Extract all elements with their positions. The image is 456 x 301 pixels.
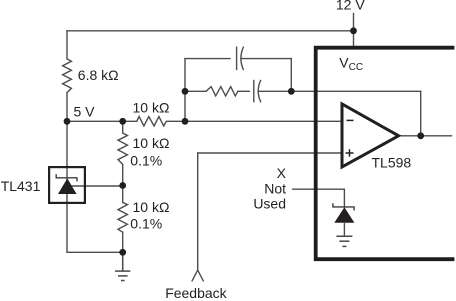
wire top cap branch right (241, 58, 291, 60)
wire op-amp output (399, 135, 452, 137)
wire top rail from left rail to 12V node (67, 30, 354, 32)
node divider top (119, 118, 126, 125)
svg-text:6.8 kΩ: 6.8 kΩ (78, 67, 119, 83)
wire RC branch right (258, 90, 291, 92)
node compensation right (288, 88, 295, 95)
wire divider between R3 and R4 (122, 164, 124, 202)
wire feedback to output vertical (420, 91, 422, 136)
wire compensation right vertical (290, 59, 292, 92)
wire not-used pin (293, 189, 345, 207)
svg-text:X: X (277, 165, 287, 181)
node divider mid (119, 182, 126, 189)
IC box TL598 (316, 48, 455, 260)
wire divider top segment (122, 121, 124, 133)
svg-text:Feedback: Feedback (165, 285, 227, 301)
wire compensation left vertical (184, 59, 186, 122)
svg-text:10 kΩ: 10 kΩ (133, 99, 170, 115)
resistor R3 10 kOhm 0.1% upper (118, 133, 127, 164)
svg-text:Not: Not (264, 181, 286, 197)
wire feedback to output horizontal (291, 90, 420, 92)
ground GND2 (diode) (336, 236, 352, 246)
wire top cap branch left (185, 58, 230, 60)
wire R2 to op-amp inverting input (166, 120, 342, 122)
capacitor C2 curved plate (258, 80, 261, 103)
svg-text:Used: Used (253, 196, 286, 212)
capacitor C2 flat plate (253, 80, 255, 103)
wire RC branch between resistor and cap (238, 90, 250, 92)
wire divider below R4 to ground node (122, 232, 124, 252)
feedback arrow (192, 270, 204, 281)
op-amp U1 (342, 104, 399, 167)
node compensation left (182, 88, 189, 95)
wire anode to ground node (67, 251, 123, 253)
wire left rail upper (66, 31, 68, 59)
wire left rail mid (66, 93, 68, 166)
TL431 cathode bar (56, 174, 77, 181)
node inverting branch (182, 118, 189, 125)
node 5V (64, 118, 71, 125)
svg-text:TL431: TL431 (1, 178, 41, 194)
diode D1 triangle (334, 207, 354, 223)
resistor R1 6.8 kOhm (63, 59, 72, 93)
op-amp plus sign (346, 149, 354, 157)
svg-text:0.1%: 0.1% (130, 216, 162, 232)
node output (417, 132, 424, 139)
svg-text:10 kΩ: 10 kΩ (133, 135, 170, 151)
TL431 triangle (58, 178, 77, 194)
svg-text:12 V: 12 V (336, 0, 365, 12)
capacitor C1 curved plate (241, 47, 244, 71)
wire left rail through TL431 to bottom corner (66, 166, 68, 252)
TL431 U2 box (49, 167, 85, 203)
node 12V junction (350, 27, 357, 34)
resistor R2 10 kOhm horizontal (137, 117, 167, 126)
svg-text:10 kΩ: 10 kΩ (133, 199, 170, 215)
wire 12V stub (353, 14, 355, 47)
wire TL431 ref to divider node (72, 185, 123, 187)
op-amp minus sign (347, 119, 354, 121)
resistor R5 compensation (206, 87, 238, 96)
wire RC branch left (185, 90, 206, 92)
node ground junction (119, 249, 126, 256)
wire 5V node to R2 (67, 120, 137, 122)
ground GND1 (divider) (115, 252, 130, 280)
diode D1 cathode bar (zener style) (333, 203, 354, 210)
wire noninverting input (198, 152, 342, 154)
resistor R4 10 kOhm 0.1% lower (118, 202, 127, 232)
capacitor C1 flat plate (236, 47, 238, 71)
diode D1 stem (343, 223, 345, 237)
svg-text:TL598: TL598 (372, 155, 412, 171)
svg-text:0.1%: 0.1% (130, 152, 162, 168)
wire feedback vertical (197, 153, 199, 270)
svg-text:5 V: 5 V (74, 103, 96, 119)
